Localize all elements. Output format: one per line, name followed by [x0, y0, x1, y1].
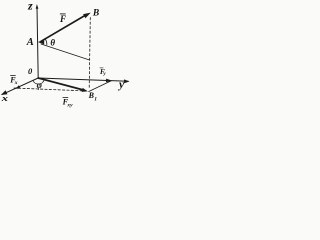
- line B1 to Fy tip on y-axis: [89, 81, 111, 92]
- svg-text:F: F: [59, 14, 66, 24]
- vector F arrowhead at B: [83, 13, 91, 19]
- dashed line from x-axis to B1: [14, 88, 88, 91]
- vector Fy arrowhead on y-axis: [106, 79, 113, 83]
- svg-text:θ: θ: [50, 38, 55, 48]
- vector Fxy line O to B1: [38, 78, 83, 90]
- axis x: [3, 78, 39, 94]
- vector F line from A to B: [41, 15, 86, 41]
- axis z arrowhead: [36, 4, 39, 9]
- vector Fx arrowhead on x-axis: [16, 85, 21, 89]
- vector Fxy arrowhead at B1: [82, 88, 88, 92]
- axis y: [38, 78, 128, 81]
- dashed line B to B1: [89, 18, 90, 89]
- axis x arrowhead: [1, 90, 8, 95]
- angle phi arc: [33, 80, 44, 85]
- svg-text:φ: φ: [37, 80, 42, 90]
- axis y arrowhead: [124, 79, 130, 83]
- svg-text:x: x: [14, 80, 18, 86]
- svg-text:xy: xy: [66, 103, 73, 109]
- arrowhead at point A pointing left: [38, 40, 44, 45]
- svg-text:z: z: [27, 0, 33, 13]
- svg-text:A: A: [26, 37, 34, 48]
- svg-text:y: y: [117, 79, 125, 91]
- svg-text:x: x: [0, 93, 9, 103]
- angle theta arc: [46, 40, 47, 45]
- svg-text:B: B: [92, 9, 99, 19]
- line A to B2 (parallel to OB1): [41, 44, 90, 60]
- svg-text:1: 1: [94, 96, 97, 102]
- axis z: [37, 7, 38, 78]
